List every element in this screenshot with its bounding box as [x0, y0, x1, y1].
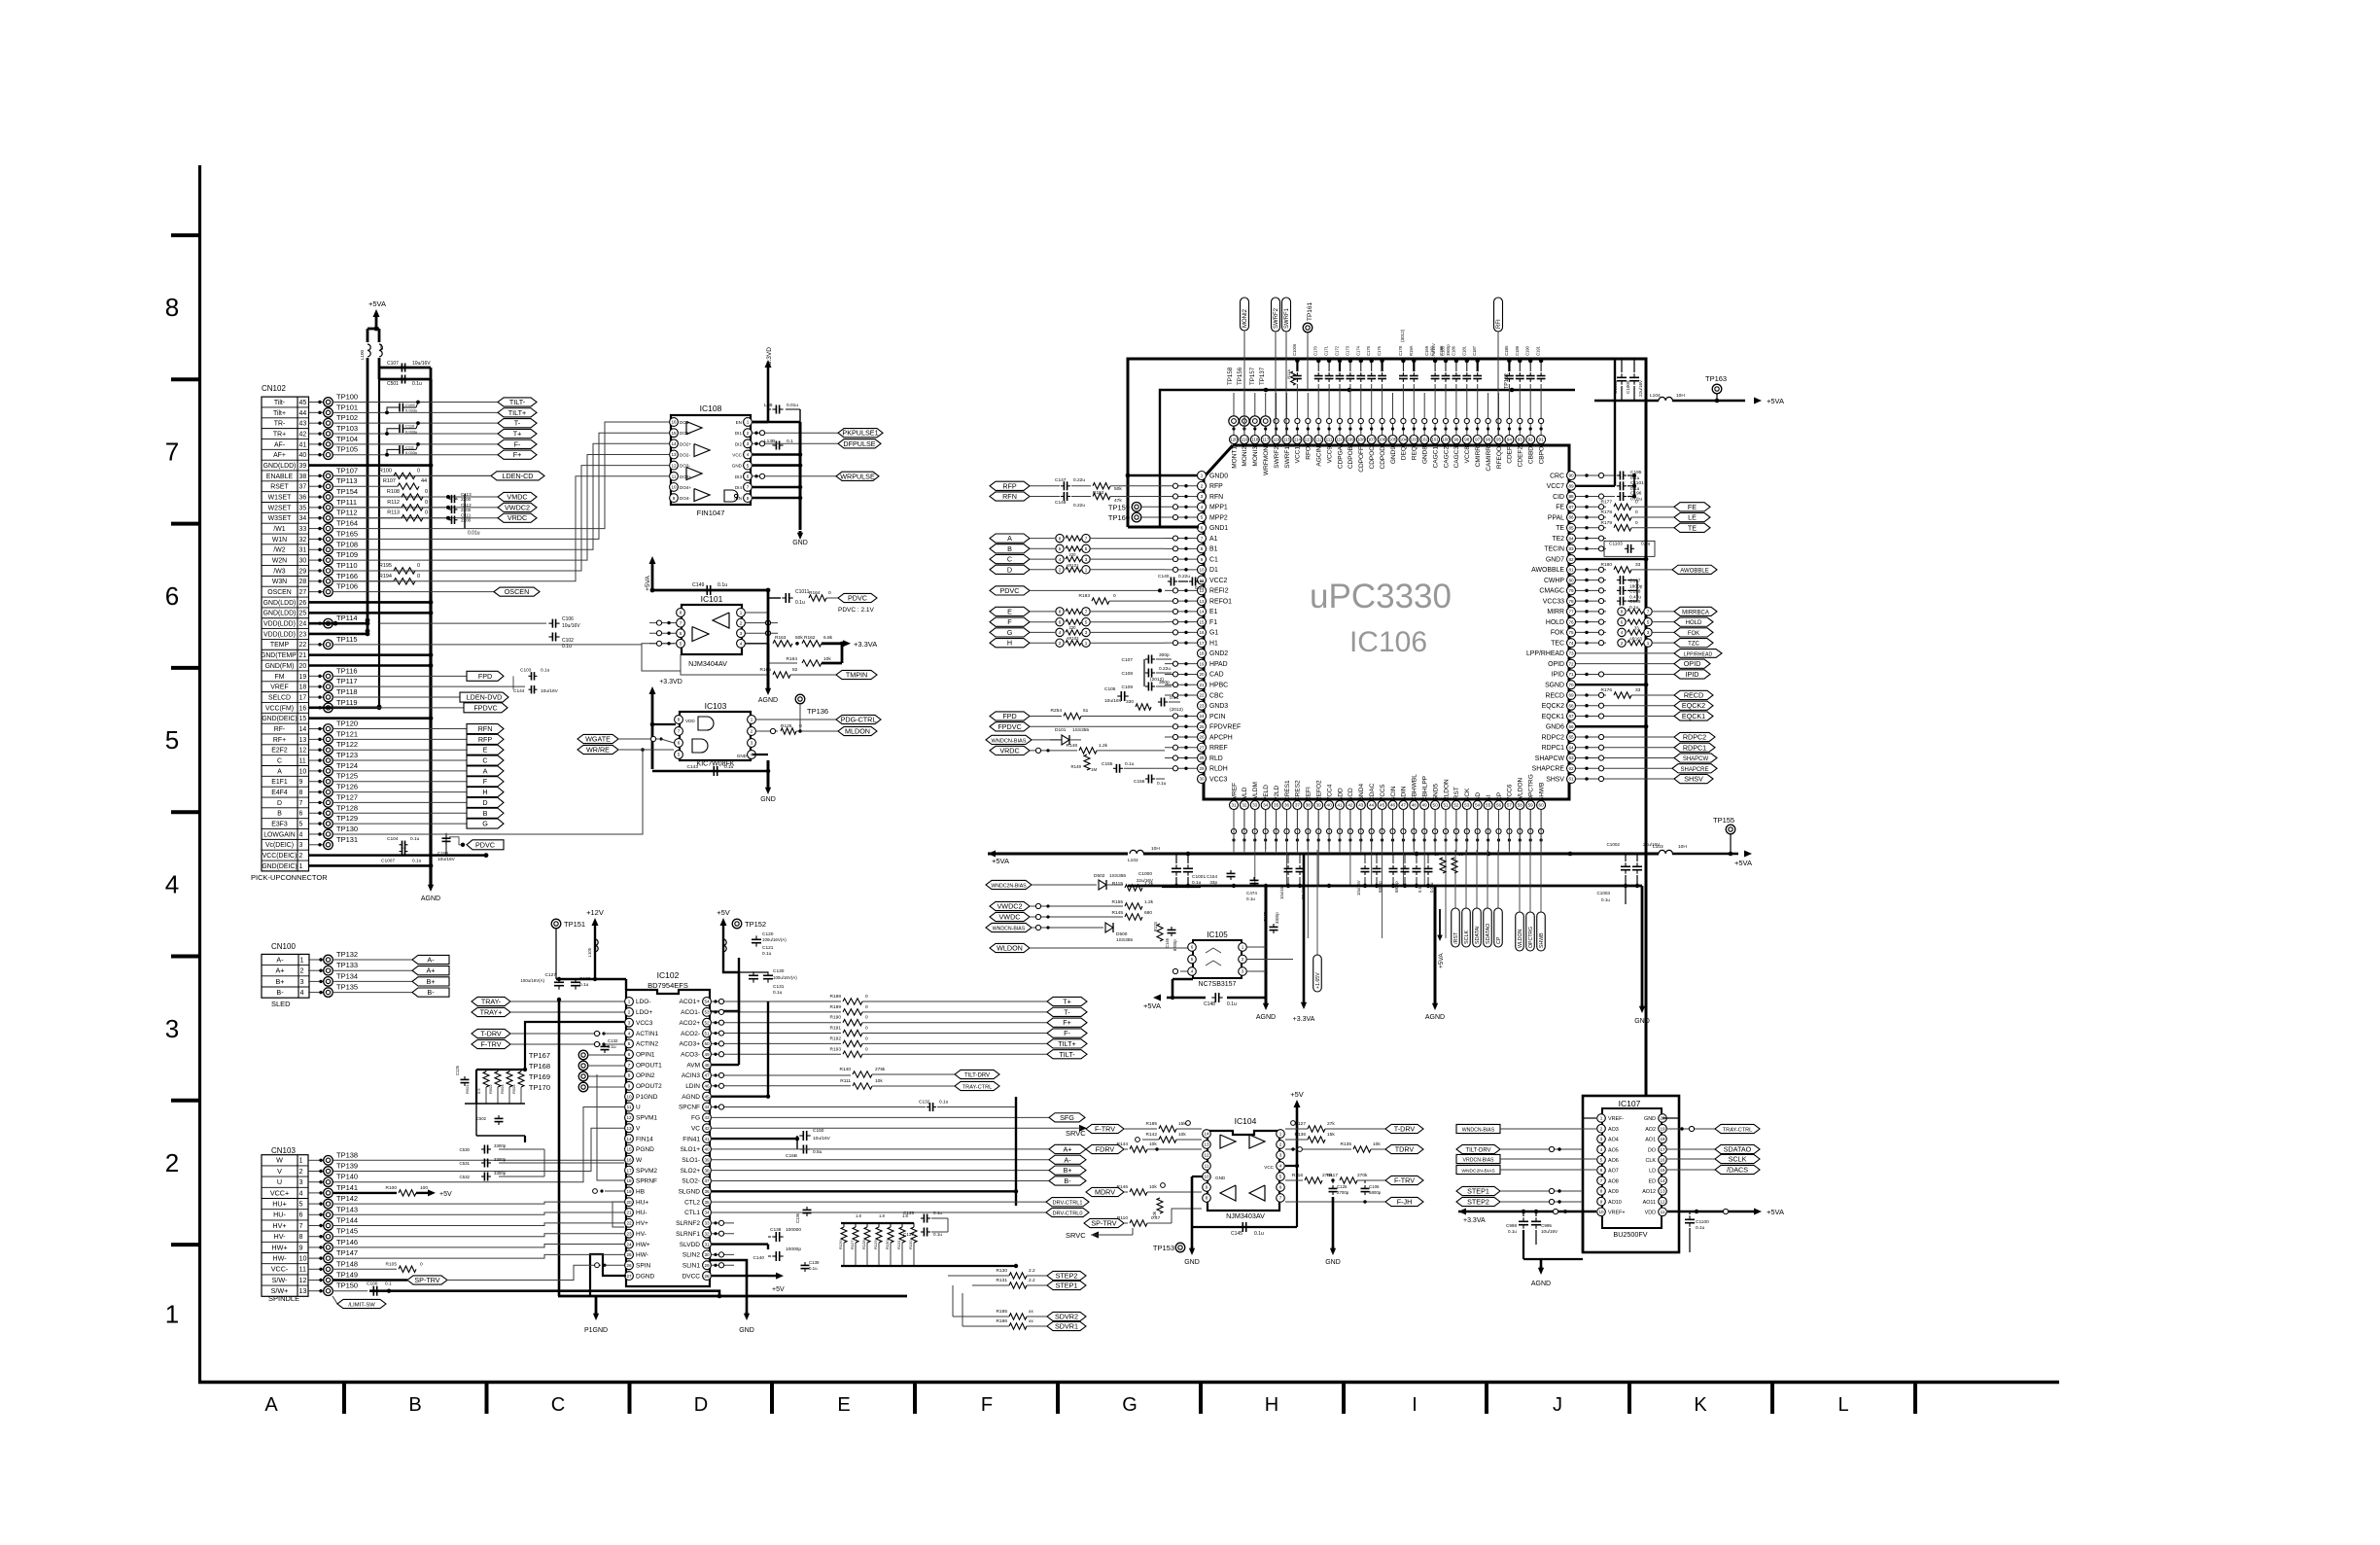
svg-text:10: 10 — [1199, 568, 1205, 573]
svg-text:D500: D500 — [1116, 931, 1128, 937]
svg-text:86: 86 — [1568, 515, 1574, 520]
svg-text:TR+: TR+ — [273, 431, 286, 438]
svg-text:FPD: FPD — [1002, 712, 1016, 720]
svg-text:3900p: 3900p — [1446, 344, 1451, 356]
svg-text:R127: R127 — [850, 1240, 855, 1249]
svg-text:3: 3 — [628, 1020, 631, 1025]
svg-text:/LIMIT-SW: /LIMIT-SW — [348, 1303, 375, 1309]
svg-text:C530: C530 — [460, 1147, 471, 1152]
svg-text:CTL1: CTL1 — [684, 1210, 700, 1216]
svg-text:TP127: TP127 — [336, 792, 358, 801]
svg-text:90: 90 — [1568, 474, 1574, 478]
svg-text:8200p: 8200p — [1172, 939, 1177, 951]
svg-text:C146: C146 — [1165, 937, 1170, 948]
svg-text:GND: GND — [739, 1327, 754, 1334]
wire SGND to bus — [1576, 683, 1648, 687]
svg-text:AO3: AO3 — [1608, 1127, 1619, 1133]
svg-text:G: G — [1007, 628, 1013, 637]
svg-text:DFPULSE: DFPULSE — [843, 439, 875, 448]
svg-text:F: F — [981, 1394, 993, 1416]
svg-text:R116: R116 — [1292, 1173, 1303, 1178]
svg-text:2: 2 — [1242, 957, 1244, 962]
svg-text:11: 11 — [672, 474, 677, 479]
pin 37 CRES2 (IC106 bottom) — [1293, 780, 1302, 810]
svg-text:33: 33 — [1458, 852, 1463, 857]
net tag VWDC (bottom) — [990, 912, 1123, 921]
svg-text:TP147: TP147 — [336, 1248, 358, 1257]
svg-text:7: 7 — [680, 620, 682, 625]
svg-text:E1F1: E1F1 — [271, 779, 288, 786]
svg-text:R140: R140 — [840, 1067, 852, 1072]
pin 27 RREF (IC106 left) — [1198, 743, 1228, 752]
sheet border frame — [198, 165, 2059, 1384]
svg-text:5: 5 — [628, 1041, 631, 1046]
svg-text:45: 45 — [299, 400, 307, 406]
pin 20 HU+ (IC102) — [625, 1198, 649, 1207]
svg-text:22: 22 — [626, 1221, 632, 1226]
svg-text:0.1u: 0.1u — [1246, 896, 1255, 901]
svg-text:13: 13 — [1660, 1189, 1665, 1194]
vertical net tags /RST SCLK SDATAI SDATAO CP — [1452, 850, 1503, 947]
svg-text:VRDC: VRDC — [999, 746, 1019, 755]
net tag EQCK2 — [1606, 701, 1713, 710]
svg-text:R130: R130 — [997, 1268, 1008, 1274]
svg-text:C138: C138 — [770, 1227, 782, 1233]
pin 21 HU- (IC102) — [625, 1209, 647, 1217]
wire RSET SELCD thin runs — [332, 686, 525, 697]
capacitor C107 10u/16V — [367, 358, 431, 632]
svg-text:SHAPCW: SHAPCW — [1535, 755, 1565, 762]
svg-text:C165: C165 — [1263, 911, 1268, 922]
svg-text:TP112: TP112 — [336, 509, 358, 517]
wire CN103 motor lines to IC102 — [332, 1202, 624, 1258]
net tag FDRV — [1086, 1144, 1128, 1153]
svg-text:TP129: TP129 — [336, 814, 358, 823]
svg-text:TP110: TP110 — [336, 561, 358, 570]
svg-text:E4F4: E4F4 — [271, 790, 288, 796]
resistor R194 0 — [332, 574, 420, 584]
svg-text:RDPC2: RDPC2 — [1683, 733, 1706, 742]
pin 116 SWRF2 (IC106 top) — [1272, 436, 1280, 469]
thick rails inside-left of IC102 (P1GND path) — [557, 998, 907, 1314]
capacitor C1011 0.1u — [768, 589, 810, 606]
pin 44 CDAC (IC106 bottom) — [1367, 783, 1376, 809]
net tag PDG-CTRL — [756, 715, 881, 723]
svg-text:18: 18 — [626, 1178, 632, 1183]
row labels 8-1 — [165, 293, 179, 1329]
svg-text:SI: SI — [1486, 795, 1492, 801]
test point TP152 and +5V — [717, 908, 766, 958]
pin 4 IC103 — [748, 751, 756, 759]
test point TP139 — [308, 1162, 358, 1176]
svg-text:77: 77 — [1568, 610, 1574, 614]
svg-text:VREF: VREF — [270, 685, 288, 691]
svg-text:47: 47 — [704, 1073, 710, 1078]
svg-text:24: 24 — [1199, 714, 1205, 719]
svg-text:B-: B- — [427, 988, 435, 997]
svg-text:0.1u: 0.1u — [608, 1044, 616, 1049]
svg-text:W: W — [636, 1157, 643, 1164]
net tag SP-TRV (CN103) — [332, 1263, 624, 1284]
svg-text:6: 6 — [165, 581, 179, 611]
resistor R142 10k — [1136, 1132, 1202, 1142]
pin 69 RECD (IC106 right) — [1545, 690, 1575, 699]
net SRVC output — [712, 1125, 1087, 1138]
svg-text:1: 1 — [628, 1000, 631, 1004]
capacitor C1008 C1009 top right — [1613, 359, 1643, 401]
svg-text:1k: 1k — [1434, 852, 1439, 857]
svg-text:6: 6 — [678, 741, 681, 746]
test points TP167 TP168 TP169 TP170 — [529, 1050, 624, 1092]
svg-text:6.8k: 6.8k — [823, 635, 833, 641]
svg-text:GND: GND — [732, 464, 743, 469]
pin 71 IPID (IC106 right) — [1552, 670, 1576, 679]
svg-text:CDPOD: CDPOD — [1380, 446, 1386, 470]
svg-text:270k: 270k — [1357, 1173, 1368, 1178]
svg-text:SPRNF: SPRNF — [636, 1178, 657, 1185]
svg-text:2200: 2200 — [461, 508, 472, 512]
pin 23 HV- (IC102) — [625, 1229, 647, 1238]
net tag EQCK1 — [1606, 712, 1713, 720]
svg-text:2: 2 — [165, 1148, 179, 1177]
svg-text:SELCD: SELCD — [268, 694, 291, 701]
svg-text:R180: R180 — [1601, 562, 1613, 568]
pin 34 PELD (IC106 bottom) — [1261, 785, 1270, 810]
svg-text:R146: R146 — [1117, 1184, 1129, 1190]
net tag TRAY-CTRL (IC107 out) — [1667, 1124, 1760, 1133]
svg-text:OPID: OPID — [1548, 661, 1564, 668]
test point TP147 — [308, 1248, 358, 1263]
pin 42 VC (IC102) — [691, 1124, 711, 1133]
svg-text:C107: C107 — [387, 361, 399, 367]
pin 39 REFO2 (IC106 bottom) — [1314, 780, 1323, 810]
svg-text:220: 220 — [1069, 625, 1077, 630]
test point TP134 — [308, 971, 412, 986]
svg-text:1.2k: 1.2k — [1144, 881, 1154, 887]
svg-text:0.1u: 0.1u — [410, 836, 420, 842]
net tag SP-TRV (IC104 in) — [1084, 1218, 1128, 1227]
svg-text:HW-: HW- — [272, 1254, 287, 1263]
svg-text:0.1u: 0.1u — [933, 1232, 942, 1237]
svg-text:C1B5: C1B5 — [1504, 345, 1509, 356]
test point TP132 — [308, 950, 412, 965]
svg-text:+5VA: +5VA — [1143, 1001, 1161, 1010]
resistor array R126-R139 bottom right of IC102 — [838, 1213, 1018, 1268]
svg-text:C1009: C1009 — [1626, 380, 1630, 394]
svg-text:VDD: VDD — [1645, 1211, 1656, 1216]
svg-text:C111: C111 — [405, 444, 415, 449]
pin 17 SPVM2 (IC102) — [625, 1166, 658, 1175]
pin 3 IC105 — [1239, 967, 1247, 976]
inductor L101 — [379, 344, 384, 357]
capacitor C501 0.1u — [379, 368, 431, 387]
svg-text:WNDC2N-BIAS: WNDC2N-BIAS — [991, 884, 1027, 890]
svg-text:AO10: AO10 — [1608, 1200, 1622, 1206]
capacitor group 22u/16V pairs center — [1279, 854, 1434, 899]
svg-text:C127: C127 — [545, 972, 557, 978]
svg-text:10: 10 — [1204, 1175, 1209, 1179]
svg-text:RF-: RF- — [274, 726, 285, 733]
svg-text:31: 31 — [299, 547, 307, 554]
wire AGND pin45 thick — [712, 1001, 770, 1099]
svg-text:R125: R125 — [781, 723, 792, 729]
svg-text:82: 82 — [1568, 557, 1574, 562]
svg-text:RLD: RLD — [1209, 755, 1223, 762]
wire IC108 GND bus — [752, 422, 802, 530]
svg-text:50: 50 — [704, 1041, 710, 1046]
pin 1 IC104 — [1277, 1130, 1285, 1139]
resistor R136 15k — [1285, 1132, 1335, 1142]
test point TP164 — [309, 519, 359, 534]
svg-text:DO4+: DO4+ — [680, 485, 691, 490]
svg-text:0.1u: 0.1u — [1192, 880, 1202, 886]
svg-text:ADIN: ADIN — [1401, 786, 1408, 801]
resistor R154 47k — [1093, 493, 1165, 504]
svg-text:T-DRV: T-DRV — [1394, 1125, 1416, 1134]
svg-text:275k: 275k — [875, 1067, 886, 1072]
svg-text:0.1u: 0.1u — [1696, 1225, 1705, 1231]
svg-text:SHAPCW: SHAPCW — [1683, 756, 1709, 762]
svg-text:34: 34 — [299, 515, 307, 522]
pin 87 FE (IC106 right) — [1556, 503, 1575, 511]
pin 9 DO4- — [670, 494, 691, 503]
pin 1 IC103 — [748, 716, 756, 724]
svg-text:16: 16 — [1660, 1158, 1665, 1163]
svg-text:R128: R128 — [861, 1240, 866, 1249]
svg-text:IC108: IC108 — [700, 404, 722, 413]
svg-text:DI2: DI2 — [735, 441, 743, 446]
net tag WNDCN-BIAS (IC106) — [986, 735, 1050, 744]
svg-text:CBBD: CBBD — [1528, 446, 1535, 464]
svg-text:TE2: TE2 — [1552, 536, 1564, 543]
net tag OPID — [1576, 659, 1710, 668]
capacitor C133 0.1u at OPIN1 — [601, 1038, 619, 1053]
svg-text:/W1: /W1 — [273, 526, 285, 533]
pin 1 LDO- (IC102) — [625, 998, 651, 1006]
net tag B- (CN100) — [412, 988, 449, 997]
pin 36 SLGND (IC102) — [679, 1187, 712, 1196]
pin 9 AO10 (IC107) — [1597, 1197, 1622, 1206]
inductor L100 — [360, 344, 370, 360]
svg-text:10000p: 10000p — [786, 1247, 801, 1252]
test point TP130 — [309, 825, 359, 839]
svg-text:65: 65 — [1568, 735, 1574, 740]
svg-text:A: A — [264, 1394, 278, 1416]
pin 107 CDPOC (IC106 top) — [1367, 436, 1376, 470]
test point TP144 — [308, 1216, 358, 1231]
svg-text:TP153: TP153 — [1153, 1244, 1174, 1252]
svg-text:27: 27 — [299, 589, 307, 596]
svg-text:MDRV: MDRV — [1095, 1188, 1115, 1197]
pin 30 SLIN2 (IC102) — [682, 1250, 711, 1259]
svg-text:TP137: TP137 — [1259, 367, 1266, 385]
svg-text:120: 120 — [1230, 438, 1238, 442]
pin 28 DVCC (IC102) — [682, 1272, 712, 1281]
svg-text:TEMP: TEMP — [270, 642, 290, 649]
IC IC103 KIC7W08FK — [680, 701, 751, 768]
pin 20 GND (IC107) — [1644, 1114, 1666, 1123]
svg-text:R112: R112 — [387, 500, 400, 506]
svg-text:WNDCN-BIAS: WNDCN-BIAS — [993, 927, 1026, 932]
svg-text:RSET: RSET — [270, 484, 289, 491]
svg-text:+5V: +5V — [717, 908, 730, 917]
pin 11 IC104 — [1203, 1162, 1211, 1171]
svg-text:C531: C531 — [460, 1161, 471, 1166]
svg-text:SWRF1: SWRF1 — [1284, 446, 1291, 469]
svg-text:107: 107 — [1368, 438, 1376, 442]
svg-text:57: 57 — [1507, 803, 1513, 808]
svg-text:27: 27 — [626, 1274, 632, 1279]
svg-text:8: 8 — [299, 790, 303, 796]
pin 15 F1 (IC106 left) — [1198, 617, 1218, 626]
svg-text:29: 29 — [704, 1263, 710, 1268]
svg-text:VRDC: VRDC — [507, 513, 527, 522]
ground GND right of IC104 — [1325, 1197, 1341, 1266]
svg-text:OPOUT1: OPOUT1 — [636, 1062, 662, 1069]
svg-text:0.01u: 0.01u — [468, 531, 480, 537]
svg-text:18: 18 — [1199, 651, 1205, 656]
svg-text:2: 2 — [300, 966, 304, 975]
vertical net tags WLDON OPCTRG SHWB — [1516, 850, 1546, 951]
pin 13 AO12 (IC107) — [1642, 1187, 1666, 1196]
op-amp U101a — [692, 627, 709, 642]
svg-text:VRDCN-BIAS: VRDCN-BIAS — [1463, 1158, 1495, 1164]
svg-text:1SS355: 1SS355 — [1109, 873, 1126, 879]
svg-text:HV-: HV- — [636, 1231, 647, 1238]
wire top inner bus — [1160, 388, 1575, 527]
svg-text:TP149: TP149 — [336, 1271, 358, 1280]
capacitor C103 0.1u / C144 10u/16V rows FM VREF — [513, 667, 559, 694]
svg-text:VCC5: VCC5 — [1380, 784, 1386, 801]
svg-text:7: 7 — [299, 1221, 303, 1230]
capacitor C130 100u/16V(A) C131 0.1u — [739, 968, 797, 996]
svg-text:37: 37 — [704, 1178, 710, 1183]
svg-text:RREF: RREF — [1209, 745, 1228, 752]
pin 2 IC104 — [1277, 1141, 1285, 1149]
svg-text:40: 40 — [1327, 803, 1333, 808]
svg-text:C137: C137 — [903, 1232, 914, 1237]
svg-text:+5V: +5V — [439, 1191, 452, 1198]
svg-text:52: 52 — [704, 1020, 710, 1025]
power +3.3VA at IC107 — [1458, 1209, 1596, 1225]
svg-text:TR-: TR- — [274, 421, 285, 428]
svg-text:SP-TRV: SP-TRV — [414, 1276, 439, 1284]
svg-text:69: 69 — [1568, 693, 1574, 698]
svg-text:9: 9 — [673, 496, 676, 501]
svg-text:TP108: TP108 — [336, 540, 358, 548]
column ticks bottom — [344, 1384, 1915, 1414]
IC IC106 uPC3330 body — [1204, 445, 1569, 799]
svg-text:RFP: RFP — [1209, 483, 1223, 490]
svg-text:0: 0 — [420, 1261, 423, 1267]
svg-text:CRES2: CRES2 — [1295, 780, 1302, 801]
pin 13 DO2- — [670, 450, 691, 459]
svg-text:10: 10 — [626, 1094, 632, 1099]
svg-text:20: 20 — [1199, 672, 1205, 677]
svg-text:67: 67 — [1568, 714, 1574, 719]
pin 6 IC103 — [675, 739, 683, 748]
svg-text:C1103: C1103 — [1609, 541, 1623, 546]
svg-text:CWHP: CWHP — [1544, 578, 1564, 584]
svg-text:STEP1: STEP1 — [1467, 1187, 1489, 1196]
wire AGND rail below IC106 — [1128, 884, 1642, 888]
svg-text:A-: A- — [276, 955, 284, 964]
svg-text:TP117: TP117 — [336, 677, 358, 685]
svg-text:2: 2 — [299, 1167, 303, 1176]
svg-text:0: 0 — [425, 489, 428, 495]
pin 14 IC104 — [1203, 1130, 1211, 1139]
gate U108a — [686, 422, 702, 435]
svg-text:GND3: GND3 — [1209, 703, 1228, 710]
svg-text:TP131: TP131 — [336, 835, 358, 844]
pin 8 /EN — [734, 494, 752, 503]
svg-text:GND: GND — [792, 540, 808, 546]
svg-text:6: 6 — [1621, 619, 1624, 624]
svg-text:33: 33 — [299, 526, 307, 533]
svg-text:0: 0 — [425, 500, 428, 506]
svg-text:F: F — [1007, 617, 1012, 626]
pin 52 ACO2+ (IC102) — [680, 1018, 712, 1027]
svg-text:8: 8 — [299, 1232, 303, 1241]
svg-text:6: 6 — [1059, 619, 1062, 624]
svg-text:SHWB: SHWB — [1539, 932, 1545, 948]
svg-text:VCC1: VCC1 — [1295, 446, 1302, 464]
svg-text:(3012): (3012) — [1400, 329, 1405, 342]
pin 3 RFN (IC106 left) — [1198, 492, 1224, 501]
diode D500 1SS355 — [1105, 923, 1133, 943]
svg-text:TP125: TP125 — [336, 772, 358, 781]
ground GND at IC104 left — [1184, 1176, 1203, 1266]
svg-text:TP148: TP148 — [336, 1259, 358, 1268]
svg-text:2: 2 — [1279, 1142, 1282, 1147]
svg-text:AGND: AGND — [1425, 1014, 1445, 1021]
svg-text:F-: F- — [1064, 1029, 1070, 1037]
IC IC108 FIN1047 — [671, 404, 751, 517]
svg-text:SRVC: SRVC — [1066, 1129, 1086, 1138]
pin 28 RLD (IC106 left) — [1198, 754, 1223, 762]
power +3.3VA drop — [1293, 854, 1315, 1023]
svg-text:44: 44 — [1369, 803, 1375, 808]
svg-text:15: 15 — [671, 431, 677, 436]
svg-text:CRES1: CRES1 — [1284, 780, 1291, 801]
svg-text:C140: C140 — [1158, 574, 1170, 579]
pin 67 EQCK1 (IC106 right) — [1542, 712, 1576, 720]
test point TP159 — [1108, 502, 1165, 511]
pin 1 IC101 — [737, 609, 746, 617]
svg-text:30: 30 — [299, 558, 307, 565]
svg-text:23: 23 — [1199, 703, 1205, 708]
svg-text:LDO+: LDO+ — [636, 1009, 652, 1016]
svg-text:0.033u: 0.033u — [405, 450, 417, 455]
pin 119 MONI2 (IC106 top) — [1240, 436, 1248, 467]
svg-text:TP169: TP169 — [529, 1072, 550, 1081]
capacitor C105 10u/16V and R150 330 — [1104, 686, 1183, 713]
svg-text:8: 8 — [1621, 610, 1624, 614]
svg-text:APCPH: APCPH — [1209, 734, 1233, 741]
svg-text:17: 17 — [1660, 1147, 1665, 1152]
svg-text:C151: C151 — [437, 851, 449, 857]
svg-text:44: 44 — [704, 1105, 710, 1109]
resistor R165 82 — [681, 667, 836, 678]
svg-text:18: 18 — [299, 685, 307, 691]
svg-text:PDG-CTRL: PDG-CTRL — [841, 716, 877, 724]
net tag IPID — [1606, 670, 1710, 679]
svg-text:0: 0 — [417, 574, 420, 579]
svg-text:T-: T- — [1064, 1007, 1070, 1016]
svg-text:21: 21 — [1199, 683, 1205, 687]
svg-text:43: 43 — [704, 1115, 710, 1120]
svg-text:C1100: C1100 — [1696, 1219, 1709, 1225]
